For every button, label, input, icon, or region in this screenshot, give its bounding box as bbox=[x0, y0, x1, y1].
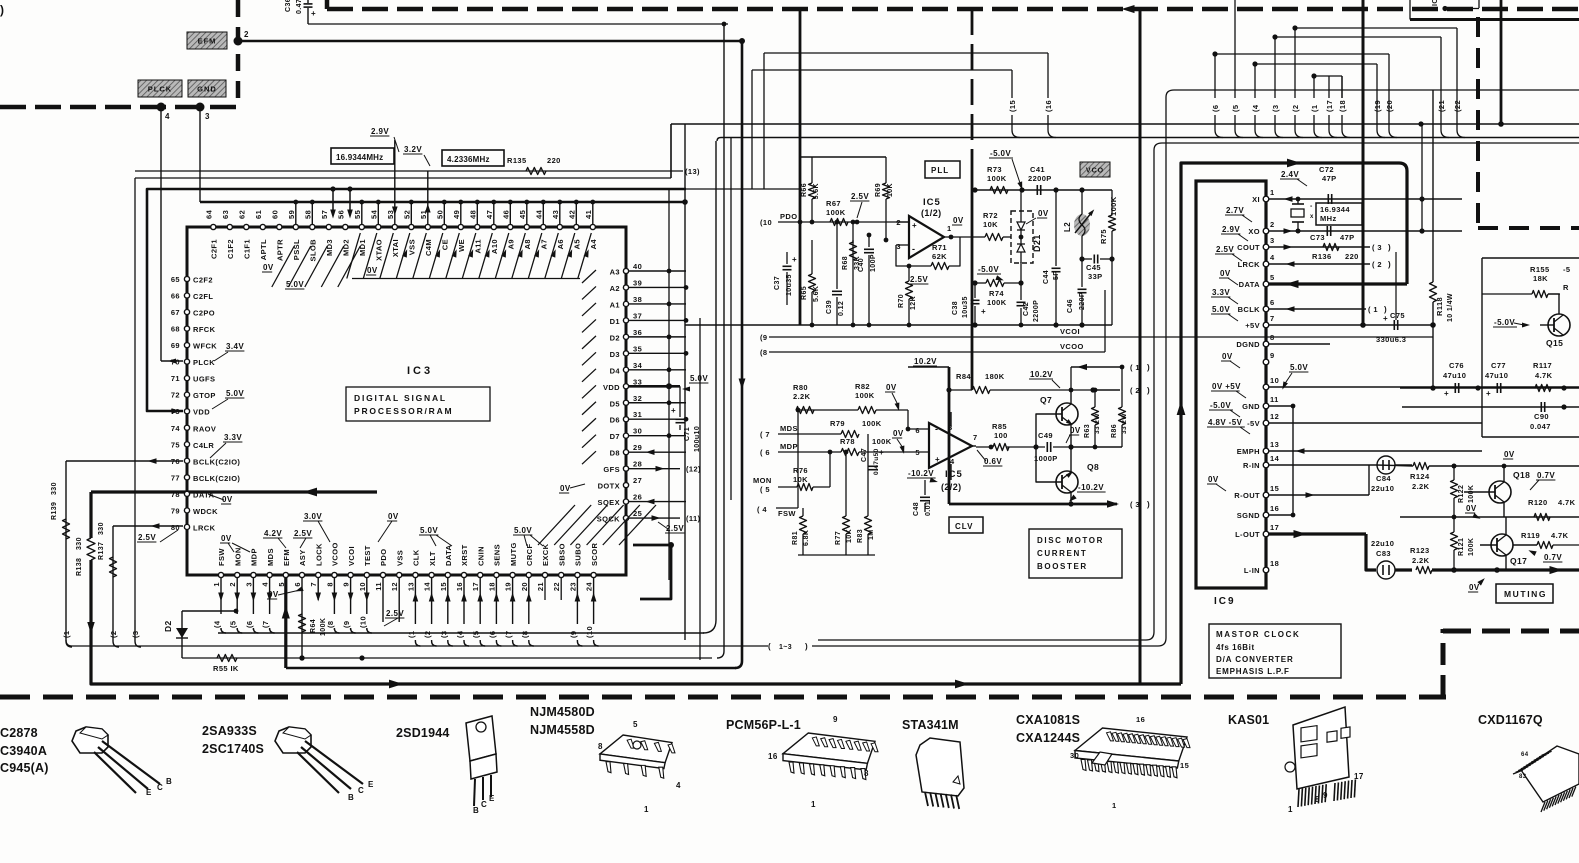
wire IC3 pin3 stub (6 bbox=[245, 578, 259, 633]
svg-text:STA341M: STA341M bbox=[902, 718, 959, 732]
IC9 pin 1 XI bbox=[1252, 188, 1274, 204]
label 2.9V bbox=[370, 127, 399, 152]
label 2.9V IC9 bbox=[1221, 225, 1248, 241]
capacitor C46 220P bbox=[1067, 256, 1087, 327]
svg-text:79: 79 bbox=[171, 506, 180, 515]
svg-text:100K: 100K bbox=[1468, 538, 1475, 556]
svg-text:-5.0V: -5.0V bbox=[978, 265, 999, 274]
svg-text:C4M: C4M bbox=[424, 239, 433, 256]
svg-text:R66: R66 bbox=[801, 183, 808, 197]
svg-text:PSSL: PSSL bbox=[292, 239, 301, 260]
svg-text:C77: C77 bbox=[1491, 361, 1506, 370]
wire dashed board border right vertical bbox=[1476, 17, 1480, 230]
wire connector stub (5 bbox=[1231, 0, 1243, 138]
wire connector stub (22 bbox=[1453, 98, 1465, 138]
wire pin29 D8 in bbox=[629, 449, 686, 455]
IC3 pin 73 VDD bbox=[171, 407, 210, 417]
svg-text:E: E bbox=[368, 780, 374, 789]
svg-text:31: 31 bbox=[633, 410, 642, 419]
wire PLL VCO rail bbox=[972, 187, 1112, 192]
package 2SD1944 TO-220 bbox=[396, 716, 497, 815]
svg-text:C49: C49 bbox=[1038, 431, 1053, 440]
wire EFM line y41 thick bbox=[238, 40, 742, 42]
svg-text:33P: 33P bbox=[1088, 272, 1103, 281]
label 0V mid bbox=[1465, 504, 1482, 521]
svg-text:R83: R83 bbox=[857, 529, 864, 543]
IC3 pin 55 MD1 bbox=[353, 200, 367, 256]
label 5.0V SLOB bbox=[285, 280, 304, 289]
svg-text:R65: R65 bbox=[801, 286, 808, 300]
svg-text:DISC MOTOR: DISC MOTOR bbox=[1037, 536, 1104, 545]
svg-text:(3: (3 bbox=[131, 631, 140, 638]
wire C4M line bbox=[425, 171, 431, 224]
svg-text:30: 30 bbox=[1070, 751, 1079, 760]
label 10.2V rail bbox=[908, 357, 949, 367]
svg-text:42: 42 bbox=[567, 210, 576, 219]
svg-text:+: + bbox=[1383, 314, 1388, 323]
svg-text:C40: C40 bbox=[858, 258, 865, 272]
svg-text:): ) bbox=[1147, 363, 1150, 372]
label IC9 title bbox=[1214, 596, 1236, 607]
svg-text:E: E bbox=[489, 794, 495, 803]
svg-text:-10.2V: -10.2V bbox=[1078, 483, 1104, 492]
wire IC3 pin14 stub (2 bbox=[423, 578, 437, 646]
svg-text:5.0V: 5.0V bbox=[286, 280, 304, 289]
svg-text:MUTG: MUTG bbox=[509, 542, 518, 566]
svg-text:R123: R123 bbox=[1410, 546, 1430, 555]
node 3 GND junction bbox=[196, 103, 211, 122]
svg-text:5: 5 bbox=[1270, 273, 1275, 282]
IC3 pin 9 VCOI bbox=[342, 546, 356, 587]
wire vertical x724 ASY bus bbox=[717, 22, 726, 658]
svg-text:0V: 0V bbox=[268, 590, 279, 599]
svg-text:2.5V: 2.5V bbox=[910, 275, 928, 284]
label 2.5V ASY bbox=[293, 529, 312, 548]
svg-text:10K: 10K bbox=[793, 475, 808, 484]
resistor R82 100K bbox=[798, 382, 910, 431]
svg-text:B: B bbox=[348, 793, 354, 802]
svg-text:1~3: 1~3 bbox=[779, 644, 792, 651]
svg-text:VCOI: VCOI bbox=[1060, 327, 1080, 336]
svg-text:R82: R82 bbox=[855, 382, 870, 391]
capacitor C38 10u35 bbox=[952, 283, 986, 325]
inductor L2 bbox=[1063, 190, 1096, 259]
label stub 1 bbox=[1071, 363, 1150, 390]
svg-text:R-OUT: R-OUT bbox=[1234, 491, 1260, 500]
svg-text:33: 33 bbox=[633, 377, 642, 386]
label -10.2V Q8 bbox=[1067, 483, 1105, 503]
svg-text:2SA933S: 2SA933S bbox=[202, 724, 257, 738]
wire PLL R66 R69 feed bbox=[800, 156, 886, 158]
svg-text:2.9V: 2.9V bbox=[1222, 225, 1240, 234]
wire IC9 pin5 DATA thick bbox=[1269, 280, 1407, 288]
IC9 pin 2 XO bbox=[1248, 220, 1274, 236]
svg-text:5.0V: 5.0V bbox=[1290, 363, 1308, 372]
wire corridor top thin y171 bbox=[135, 170, 683, 172]
svg-text:2SC1740S: 2SC1740S bbox=[202, 742, 264, 756]
transistor Q17 bbox=[1480, 517, 1527, 570]
svg-text:2.5V: 2.5V bbox=[851, 192, 869, 201]
wire IC9 pin6 BCLK bbox=[1269, 305, 1387, 314]
svg-text:17: 17 bbox=[1354, 772, 1364, 781]
package CXA1081S DIP-30 bbox=[1016, 713, 1190, 810]
wire crossover 1 bbox=[1314, 76, 1342, 98]
transistor Q7 bbox=[1040, 388, 1078, 447]
IC3 pin 29 D8 bbox=[582, 443, 642, 464]
svg-text:APTR: APTR bbox=[276, 239, 285, 261]
svg-text:MDP: MDP bbox=[250, 548, 259, 566]
svg-text:0.7V: 0.7V bbox=[1537, 471, 1555, 480]
wire stub 3 bbox=[131, 620, 141, 647]
IC3 pin 47 A10 bbox=[485, 200, 499, 254]
svg-text:XTAO: XTAO bbox=[375, 239, 384, 261]
IC9 pin 11 GND bbox=[1242, 395, 1279, 411]
svg-text:64: 64 bbox=[1521, 752, 1529, 758]
svg-text:0V: 0V bbox=[1208, 475, 1219, 484]
IC3 pin 26 SQEX bbox=[598, 493, 643, 508]
net label EFM bbox=[187, 32, 227, 49]
svg-text:MON: MON bbox=[233, 547, 242, 566]
resistor R137 330 bbox=[98, 522, 117, 577]
resistor R73 100K bbox=[987, 165, 1008, 194]
IC3 pin 48 A11 bbox=[468, 200, 482, 254]
wire IC3 pin15 stub (3 bbox=[439, 578, 453, 646]
svg-text:5: 5 bbox=[633, 720, 638, 729]
label 0.6V bbox=[977, 450, 1002, 466]
wire IC3 bottom-right fan bbox=[538, 505, 656, 545]
IC3 pin 6 ASY bbox=[293, 549, 307, 586]
wire ASY R64 line bbox=[299, 578, 304, 661]
svg-text:12: 12 bbox=[1270, 412, 1279, 421]
svg-text:C90: C90 bbox=[1534, 412, 1549, 421]
svg-text:2.7V: 2.7V bbox=[1226, 206, 1244, 215]
wire corridor bottom y646 bbox=[66, 90, 1579, 646]
wire right bus vertical x669 bbox=[668, 189, 670, 581]
label 3.2V bbox=[403, 145, 430, 166]
svg-text:RFCK: RFCK bbox=[193, 325, 216, 334]
svg-text:(: ( bbox=[768, 642, 771, 651]
svg-text:2.2K: 2.2K bbox=[793, 392, 811, 401]
svg-text:R117: R117 bbox=[1533, 361, 1552, 370]
svg-text:0.47: 0.47 bbox=[296, 0, 303, 14]
svg-text:13: 13 bbox=[406, 582, 415, 591]
svg-text:VCO: VCO bbox=[1086, 167, 1104, 174]
svg-text:R75: R75 bbox=[1099, 229, 1108, 244]
wire IC3 right data bus bbox=[629, 269, 688, 439]
svg-text:65: 65 bbox=[171, 275, 180, 284]
label stub (15 bbox=[752, 70, 1020, 189]
IC3 pin 19 MUTG bbox=[504, 542, 518, 591]
label 10.2V Q7 bbox=[1029, 370, 1060, 388]
wire IC3 pin4 stub (7 bbox=[261, 578, 275, 633]
wire IC9 pin2 XO bbox=[1269, 228, 1462, 234]
svg-text:RAOV: RAOV bbox=[193, 424, 216, 433]
svg-text:(18: (18 bbox=[1338, 100, 1347, 112]
svg-text:2.5V: 2.5V bbox=[294, 529, 312, 538]
IC3 pin 40 A3 bbox=[582, 262, 642, 283]
svg-text:6.8K: 6.8K bbox=[803, 530, 810, 546]
svg-text:C2878: C2878 bbox=[0, 726, 38, 740]
IC3 pin 16 XRST bbox=[455, 544, 469, 591]
IC3 pin 66 C2FL bbox=[171, 292, 214, 302]
svg-text:(17: (17 bbox=[1325, 100, 1334, 112]
wire pin33 VDD 5V bbox=[629, 374, 708, 392]
svg-text:1M: 1M bbox=[868, 529, 875, 540]
wire Q7 Q8 base loop bbox=[1033, 414, 1045, 482]
svg-text:100K: 100K bbox=[987, 298, 1007, 307]
svg-text:+: + bbox=[671, 406, 676, 415]
IC9 pin 13 EMPH bbox=[1237, 440, 1279, 456]
label MUTING box bbox=[1496, 584, 1553, 603]
svg-text:10: 10 bbox=[358, 582, 367, 591]
wire dashed board border right horizontal bbox=[1478, 226, 1579, 230]
wire IC3 pin19 stub (7 bbox=[504, 578, 517, 646]
svg-text:C38: C38 bbox=[952, 301, 959, 315]
IC3 pin 24 SCOR bbox=[585, 543, 599, 592]
svg-text:NJM4558D: NJM4558D bbox=[530, 723, 595, 737]
wire Q7 emitter node bbox=[1071, 446, 1122, 448]
wire corridor box left x135 bbox=[134, 178, 136, 620]
svg-text:77: 77 bbox=[171, 473, 180, 482]
IC3 pin 38 A1 bbox=[582, 295, 642, 316]
IC3 pin 69 WFCK bbox=[171, 341, 217, 351]
svg-text:(9: (9 bbox=[569, 631, 578, 638]
crystal 16.9344MHz box bbox=[331, 148, 394, 164]
svg-text:(2: (2 bbox=[109, 631, 118, 638]
wire IC9 pin17 L-OUT thick bbox=[1269, 530, 1376, 570]
svg-text:8: 8 bbox=[1270, 333, 1275, 342]
wire IC3 pin9 stub (9 bbox=[342, 578, 356, 633]
transistor Q8 bbox=[1045, 444, 1099, 506]
resistor R67 100K bbox=[826, 199, 859, 226]
svg-text:6: 6 bbox=[293, 582, 302, 587]
wire GND to rail bbox=[199, 107, 201, 202]
resistor R71 62K bbox=[896, 237, 960, 270]
svg-text:56: 56 bbox=[336, 210, 345, 219]
svg-text:+: + bbox=[1444, 389, 1449, 398]
svg-text:4: 4 bbox=[1270, 253, 1275, 262]
svg-text:11: 11 bbox=[374, 582, 383, 591]
svg-text:0V: 0V bbox=[221, 534, 232, 543]
svg-text:R139: R139 bbox=[51, 502, 58, 520]
svg-text:Q17: Q17 bbox=[1510, 556, 1527, 566]
wire stub 2 bbox=[109, 624, 119, 647]
IC3 pin 34 D4 bbox=[582, 361, 643, 382]
svg-text:C47: C47 bbox=[861, 448, 868, 462]
svg-text:0V +5V: 0V +5V bbox=[1212, 382, 1241, 391]
svg-text:100P: 100P bbox=[870, 254, 877, 272]
svg-text:64: 64 bbox=[204, 209, 213, 219]
svg-text:MHz: MHz bbox=[1320, 214, 1337, 223]
svg-text:9: 9 bbox=[833, 715, 838, 724]
svg-text:40: 40 bbox=[633, 262, 642, 271]
svg-text:LRCK: LRCK bbox=[193, 523, 216, 532]
IC3 pin 63 C1F2 bbox=[221, 210, 235, 259]
svg-text:16.9344: 16.9344 bbox=[1320, 205, 1350, 214]
wire top right thick y19 bbox=[0, 0, 1, 1]
svg-text:28: 28 bbox=[633, 460, 642, 469]
svg-text:-5V: -5V bbox=[1247, 419, 1260, 428]
svg-text:(1: (1 bbox=[1310, 105, 1319, 112]
capacitor C48 0.01 bbox=[913, 480, 932, 516]
svg-text:26: 26 bbox=[633, 493, 642, 502]
svg-text:(5: (5 bbox=[1231, 105, 1240, 112]
svg-text:A3: A3 bbox=[610, 268, 620, 277]
svg-text:(8: (8 bbox=[326, 621, 335, 628]
svg-text:21: 21 bbox=[536, 582, 545, 591]
svg-text:R85: R85 bbox=[992, 422, 1007, 431]
svg-text:C2FL: C2FL bbox=[193, 292, 213, 301]
svg-text:50: 50 bbox=[435, 210, 444, 219]
wire EXCK SBSO lines bbox=[545, 578, 561, 600]
wire crossover 6 bbox=[1215, 54, 1389, 98]
wire IC9 pin12 -5V bbox=[1269, 422, 1482, 424]
svg-text:66: 66 bbox=[171, 292, 180, 301]
svg-text:4.8V -5V: 4.8V -5V bbox=[1208, 418, 1243, 427]
svg-text:(2: (2 bbox=[423, 631, 432, 638]
wire pin80 LRCK out bbox=[113, 523, 183, 624]
svg-text:( 1: ( 1 bbox=[1368, 305, 1378, 314]
svg-text:45: 45 bbox=[518, 210, 527, 219]
svg-text:0.7V: 0.7V bbox=[1544, 553, 1562, 562]
svg-text:R84: R84 bbox=[956, 372, 971, 381]
resistor R84 180K bbox=[946, 372, 1095, 394]
svg-text:4.7K: 4.7K bbox=[1551, 531, 1569, 540]
svg-text:IC9: IC9 bbox=[1214, 596, 1236, 607]
wire PDO line bbox=[800, 221, 909, 223]
svg-text:D2: D2 bbox=[163, 620, 173, 632]
svg-text:55: 55 bbox=[353, 210, 362, 219]
svg-text:C39: C39 bbox=[826, 300, 833, 314]
wire vertical x1422 crystal feed bbox=[1421, 124, 1423, 231]
svg-text:15: 15 bbox=[1270, 484, 1279, 493]
wire vertical x731 bbox=[730, 138, 732, 501]
svg-text:2: 2 bbox=[228, 582, 237, 587]
svg-text:29: 29 bbox=[633, 443, 642, 452]
label FSW stub bbox=[757, 505, 796, 518]
capacitor C47 0.47u50 bbox=[861, 448, 884, 475]
svg-text:20: 20 bbox=[520, 582, 529, 591]
svg-text:22: 22 bbox=[552, 582, 561, 591]
IC9 pin 7 +5V bbox=[1245, 314, 1274, 330]
svg-text:22u10: 22u10 bbox=[1371, 539, 1394, 548]
IC9 pin 5 DATA bbox=[1239, 273, 1275, 289]
svg-text:1: 1 bbox=[212, 582, 221, 587]
svg-text:24: 24 bbox=[585, 582, 594, 592]
IC9 pin 9 NC bbox=[1263, 351, 1274, 365]
wire crossover 3 bbox=[1275, 37, 1441, 98]
IC3 pin 65 C2F2 bbox=[171, 275, 213, 285]
svg-text:2200P: 2200P bbox=[1033, 300, 1040, 322]
svg-text:x: x bbox=[1310, 214, 1314, 220]
svg-text:1: 1 bbox=[644, 805, 649, 814]
IC3 pin 42 A5 bbox=[567, 200, 581, 250]
IC3 pin 41 A4 bbox=[584, 200, 598, 250]
svg-text:4.2336MHz: 4.2336MHz bbox=[447, 155, 490, 164]
svg-text:100K: 100K bbox=[1109, 196, 1118, 216]
svg-text:DGND: DGND bbox=[1236, 340, 1260, 349]
svg-text:R78: R78 bbox=[840, 437, 855, 446]
svg-text:EFM: EFM bbox=[282, 549, 291, 566]
wire thick vertical x1501 bbox=[1500, 0, 1503, 124]
package 2SA933S TO-92 bbox=[202, 724, 374, 802]
svg-text:VSS: VSS bbox=[408, 239, 417, 255]
transistor Q15 bbox=[1540, 294, 1570, 348]
label 0V IC9 bbox=[1221, 352, 1240, 368]
svg-text:2: 2 bbox=[244, 30, 249, 39]
net label VCO bbox=[1080, 162, 1110, 177]
svg-text:PLCK: PLCK bbox=[148, 84, 172, 93]
svg-text:+: + bbox=[912, 221, 917, 230]
IC9 pin 18 L-IN bbox=[1244, 559, 1279, 575]
svg-text:DOTX: DOTX bbox=[598, 482, 620, 491]
wire crossover 2 bbox=[1295, 28, 1457, 98]
svg-text:D2: D2 bbox=[610, 333, 620, 342]
svg-text:10: 10 bbox=[1270, 376, 1279, 385]
svg-text:CXA1244S: CXA1244S bbox=[1016, 731, 1080, 745]
svg-text:13: 13 bbox=[1270, 440, 1279, 449]
svg-text:18K: 18K bbox=[1533, 274, 1548, 283]
svg-text:R-IN: R-IN bbox=[1243, 461, 1260, 470]
svg-text:16: 16 bbox=[1270, 504, 1279, 513]
wire IC3 top pin bus fan bbox=[347, 233, 592, 279]
svg-text:D8: D8 bbox=[610, 449, 620, 458]
svg-text:R137: R137 bbox=[98, 542, 105, 560]
svg-text:2.5V: 2.5V bbox=[138, 533, 156, 542]
svg-text:(1: (1 bbox=[62, 631, 71, 638]
svg-text:(10: (10 bbox=[358, 616, 367, 628]
svg-text:C: C bbox=[358, 786, 364, 795]
svg-text:(5: (5 bbox=[472, 631, 481, 638]
svg-text:D6: D6 bbox=[610, 416, 620, 425]
svg-text:R79: R79 bbox=[830, 419, 845, 428]
wire connector stub (1 bbox=[1310, 73, 1322, 137]
svg-text:(8: (8 bbox=[520, 631, 529, 638]
svg-text:( 4: ( 4 bbox=[757, 505, 767, 514]
svg-text:10K: 10K bbox=[983, 220, 998, 229]
svg-text:(12): (12) bbox=[686, 465, 701, 474]
wire EFM thick line bbox=[282, 578, 290, 668]
svg-text:73: 73 bbox=[171, 407, 180, 416]
IC3 pin 20 CRCF bbox=[520, 544, 534, 592]
svg-text:59: 59 bbox=[287, 210, 296, 219]
svg-text:(13): (13) bbox=[685, 167, 700, 176]
svg-text:KAS01: KAS01 bbox=[1228, 713, 1269, 727]
svg-text:MDS: MDS bbox=[266, 548, 275, 566]
wire corridor R55 y658 bbox=[182, 657, 712, 659]
svg-text:2.9V: 2.9V bbox=[371, 127, 389, 136]
resistor R121 100K bbox=[1451, 517, 1476, 570]
resistor R86 33 2W bbox=[1111, 365, 1128, 447]
svg-text:15: 15 bbox=[1180, 761, 1189, 770]
IC3 pin 18 SENS bbox=[487, 544, 501, 591]
svg-text:C2F2: C2F2 bbox=[193, 276, 213, 285]
wire 10.2V feed bbox=[908, 366, 949, 368]
IC3 pin 57 MD3 bbox=[320, 210, 334, 256]
resistor R79 100K bbox=[778, 419, 929, 438]
label 5.0V MUTG CRCF bbox=[513, 526, 543, 546]
svg-text:R63: R63 bbox=[1084, 424, 1091, 438]
IC3 pin 75 C4LR bbox=[171, 440, 215, 450]
svg-text:R71: R71 bbox=[932, 243, 947, 252]
svg-text:69: 69 bbox=[171, 341, 180, 350]
label MASTOR CLOCK box bbox=[1209, 624, 1341, 678]
op-amp IC3 body bbox=[187, 227, 626, 575]
label 5.0V IC9 bbox=[1211, 305, 1238, 321]
svg-text:C71: C71 bbox=[684, 427, 691, 441]
svg-text:C3940A: C3940A bbox=[0, 744, 47, 758]
svg-text:-: - bbox=[1310, 203, 1313, 210]
